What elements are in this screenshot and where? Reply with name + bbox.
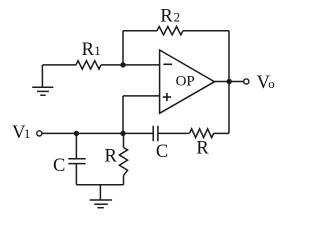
- label V1: [12, 123, 30, 143]
- op-amp U1 triangle: [160, 50, 215, 113]
- resistor R series: [190, 129, 214, 138]
- wire R1 to op-amp minus input: [101, 64, 160, 66]
- node OUT (junction dot output): [227, 79, 232, 84]
- svg-text:2: 2: [174, 10, 181, 25]
- svg-text:o: o: [268, 76, 275, 91]
- svg-text:R: R: [105, 147, 118, 167]
- svg-text:C: C: [156, 142, 168, 162]
- capacitor C shunt: [68, 159, 85, 164]
- node D (junction dot shunt R / plus path): [120, 131, 125, 136]
- svg-text:C: C: [53, 156, 65, 176]
- label R1: [82, 40, 101, 60]
- svg-text:R: R: [196, 139, 209, 159]
- terminal Vo circle: [244, 79, 249, 84]
- wire R2 right to output vertical: [183, 30, 229, 32]
- wire to R2 left: [123, 30, 157, 32]
- wire R series to right vertical: [214, 132, 230, 134]
- wire node D down to shunt R: [123, 133, 125, 147]
- wire node B down to shunt C: [75, 133, 77, 158]
- wire V1 input line: [42, 132, 153, 134]
- wire C to R series: [158, 132, 190, 134]
- resistor R shunt (vertical): [119, 148, 127, 176]
- node A (junction dot minus input): [120, 62, 125, 67]
- wire bottom rail: [76, 184, 123, 186]
- terminal V1 circle: [37, 131, 42, 136]
- capacitor C series: [153, 126, 158, 142]
- wire node A up to R2: [122, 31, 124, 65]
- resistor R2: [157, 27, 183, 35]
- ground GND2 (bottom): [90, 185, 113, 208]
- node B (junction dot shunt C): [74, 131, 79, 136]
- wire shunt R to bottom: [123, 175, 125, 185]
- resistor R1: [76, 61, 101, 69]
- svg-text:R: R: [160, 7, 173, 27]
- ground GND1 (top-left): [32, 65, 53, 95]
- label Vo: [257, 73, 275, 93]
- op-amp minus sign: [163, 63, 172, 65]
- wire right vertical (feedback bus): [228, 31, 230, 134]
- wire plus input vertical: [122, 96, 124, 133]
- wire shunt C to bottom: [75, 164, 77, 185]
- svg-text:R: R: [82, 40, 95, 60]
- wire ground1 to R1: [42, 64, 76, 66]
- op-amp plus sign: [163, 93, 171, 101]
- svg-text:OP: OP: [176, 74, 195, 90]
- wire op-amp output: [215, 81, 244, 83]
- wire plus input horizontal: [123, 95, 160, 97]
- svg-text:1: 1: [94, 43, 101, 58]
- label R2: [160, 7, 180, 27]
- svg-text:1: 1: [24, 126, 31, 141]
